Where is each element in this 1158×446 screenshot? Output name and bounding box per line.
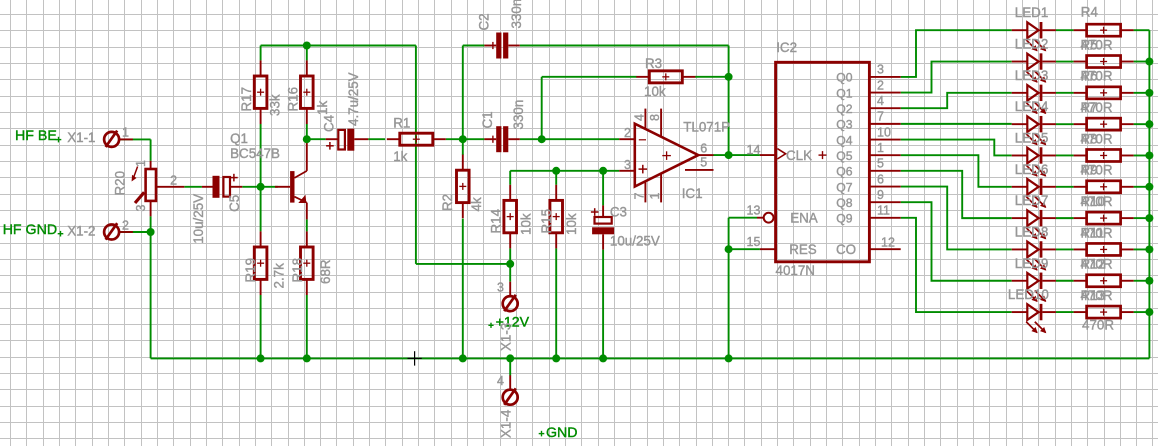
svg-text:11: 11 — [877, 204, 890, 218]
svg-text:3: 3 — [134, 205, 148, 212]
svg-text:LED9: LED9 — [1015, 256, 1049, 271]
svg-text:LED4: LED4 — [1015, 99, 1049, 114]
svg-text:R19: R19 — [243, 258, 258, 283]
svg-text:470R: 470R — [1082, 317, 1114, 332]
svg-text:LED1: LED1 — [1015, 5, 1049, 20]
svg-text:2: 2 — [624, 126, 631, 140]
svg-text:R17: R17 — [239, 87, 254, 112]
svg-text:68R: 68R — [318, 259, 333, 284]
svg-text:LED5: LED5 — [1015, 130, 1049, 145]
svg-text:1: 1 — [648, 193, 662, 200]
svg-text:330n: 330n — [511, 100, 526, 130]
svg-text:4k: 4k — [469, 197, 484, 211]
svg-text:R3: R3 — [645, 56, 662, 71]
svg-text:10k: 10k — [644, 84, 666, 99]
svg-text:R7: R7 — [1081, 100, 1098, 115]
svg-text:3: 3 — [497, 281, 504, 295]
svg-text:X1-1: X1-1 — [67, 130, 95, 145]
svg-text:R9: R9 — [1081, 163, 1098, 178]
svg-text:1k: 1k — [393, 149, 407, 164]
svg-text:Q5: Q5 — [836, 149, 852, 163]
svg-text:LED6: LED6 — [1015, 162, 1049, 177]
svg-text:Q0: Q0 — [836, 71, 852, 85]
svg-text:R5: R5 — [1081, 37, 1098, 52]
svg-text:R14: R14 — [489, 208, 504, 233]
svg-text:R13: R13 — [1081, 288, 1106, 303]
svg-text:Q6: Q6 — [836, 165, 852, 179]
svg-text:R15: R15 — [539, 209, 554, 234]
svg-text:1k: 1k — [315, 101, 330, 115]
svg-text:LED8: LED8 — [1015, 224, 1049, 239]
svg-text:4.7u/25V: 4.7u/25V — [346, 72, 361, 126]
svg-text:Q4: Q4 — [836, 133, 852, 147]
svg-text:1: 1 — [122, 125, 129, 139]
svg-text:5: 5 — [877, 157, 884, 171]
svg-text:1: 1 — [877, 141, 884, 155]
svg-text:R1: R1 — [393, 116, 410, 131]
svg-text:HF BE: HF BE — [15, 128, 57, 144]
svg-text:10k: 10k — [519, 213, 534, 235]
svg-text:X1-4: X1-4 — [499, 409, 514, 438]
svg-text:2: 2 — [170, 174, 177, 188]
svg-text:Q9: Q9 — [836, 212, 852, 226]
svg-text:10u/25V: 10u/25V — [610, 234, 660, 249]
svg-text:12: 12 — [881, 235, 895, 249]
svg-text:LED10: LED10 — [1008, 287, 1049, 302]
svg-text:2: 2 — [877, 78, 884, 92]
svg-text:C4: C4 — [322, 114, 337, 132]
svg-text:Q1: Q1 — [836, 86, 852, 100]
svg-text:Q7: Q7 — [836, 180, 852, 194]
svg-text:R4: R4 — [1081, 4, 1099, 19]
svg-text:14: 14 — [747, 143, 761, 157]
svg-text:LED7: LED7 — [1015, 193, 1049, 208]
svg-text:15: 15 — [747, 235, 761, 249]
svg-text:6: 6 — [877, 172, 884, 186]
svg-text:CO: CO — [836, 242, 856, 257]
svg-text:4: 4 — [633, 114, 647, 121]
svg-text:C5: C5 — [227, 195, 242, 212]
svg-text:3: 3 — [624, 158, 631, 172]
svg-text:R6: R6 — [1081, 69, 1098, 84]
svg-text:10k: 10k — [564, 213, 579, 235]
svg-text:7: 7 — [877, 110, 884, 124]
svg-text:4017N: 4017N — [776, 263, 815, 278]
svg-text:X1-2: X1-2 — [67, 224, 95, 239]
svg-text:330n: 330n — [509, 0, 524, 29]
svg-text:R20: R20 — [113, 171, 128, 196]
svg-text:R11: R11 — [1081, 225, 1105, 240]
svg-text:LED2: LED2 — [1015, 37, 1049, 52]
svg-text:4: 4 — [497, 374, 504, 388]
svg-text:7: 7 — [633, 193, 647, 200]
svg-text:6: 6 — [700, 142, 707, 156]
svg-text:Q1: Q1 — [230, 131, 248, 146]
svg-text:33k: 33k — [268, 94, 283, 116]
svg-text:X1-3: X1-3 — [499, 323, 514, 351]
svg-text:13: 13 — [747, 203, 761, 217]
svg-text:R2: R2 — [440, 194, 455, 211]
svg-text:R16: R16 — [286, 87, 301, 112]
svg-text:1: 1 — [134, 160, 148, 167]
svg-text:8: 8 — [648, 114, 662, 121]
svg-text:5: 5 — [700, 156, 707, 170]
svg-text:CLK: CLK — [786, 148, 812, 163]
svg-text:C1: C1 — [480, 111, 495, 128]
svg-text:2.7k: 2.7k — [272, 263, 287, 289]
svg-text:4: 4 — [877, 94, 884, 108]
svg-text:R12: R12 — [1081, 257, 1106, 272]
svg-text:IC1: IC1 — [682, 186, 703, 201]
svg-text:LED3: LED3 — [1015, 68, 1049, 83]
svg-text:ENA: ENA — [790, 211, 818, 226]
svg-text:IC2: IC2 — [776, 40, 797, 55]
svg-text:GND: GND — [546, 425, 578, 441]
svg-text:RES: RES — [789, 242, 817, 257]
svg-text:TL071P: TL071P — [683, 119, 730, 134]
svg-text:10u/25V: 10u/25V — [191, 194, 206, 244]
svg-text:10: 10 — [877, 125, 891, 139]
svg-text:Q8: Q8 — [836, 196, 852, 210]
svg-text:9: 9 — [877, 188, 884, 202]
svg-text:R8: R8 — [1081, 131, 1098, 146]
svg-text:Q3: Q3 — [836, 118, 852, 132]
svg-text:3: 3 — [877, 63, 884, 77]
svg-text:2: 2 — [122, 218, 129, 232]
svg-text:Q2: Q2 — [836, 102, 852, 116]
svg-text:C3: C3 — [610, 205, 627, 220]
svg-text:C2: C2 — [477, 13, 492, 30]
svg-text:BC547B: BC547B — [230, 146, 280, 161]
svg-text:R18: R18 — [290, 258, 305, 283]
svg-text:R10: R10 — [1081, 194, 1106, 209]
svg-text:HF GND: HF GND — [3, 222, 57, 238]
